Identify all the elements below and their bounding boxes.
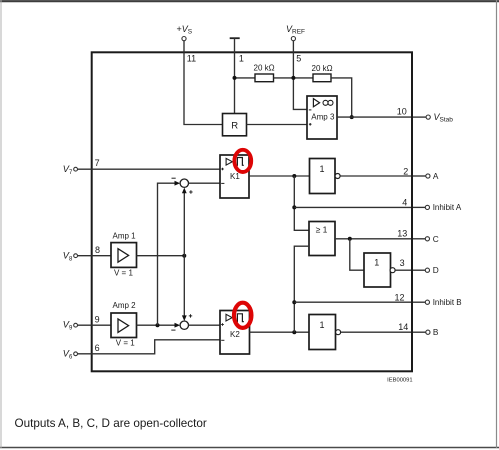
IC outline box <box>92 52 412 371</box>
svg-text:1: 1 <box>239 53 244 63</box>
svg-text:K1: K1 <box>230 172 240 181</box>
terminal A <box>413 171 439 181</box>
svg-text:V9: V9 <box>63 320 73 332</box>
svg-text:V6: V6 <box>63 348 73 360</box>
svg-text:B: B <box>433 327 439 337</box>
wire upper bus from K1 junction down to OR gate upper input <box>294 176 309 230</box>
svg-text:6: 6 <box>95 343 100 353</box>
svg-text:≥ 1: ≥ 1 <box>316 225 328 235</box>
page frame right border <box>496 0 498 448</box>
terminal Inhibit B <box>413 298 462 307</box>
wire OR gate output to pin 13 <box>335 238 411 240</box>
inverter gate A <box>310 159 341 194</box>
node junction on Amp3 output <box>350 115 354 119</box>
svg-text:K2: K2 <box>230 330 240 339</box>
wire S2 output to K2 plus input <box>189 324 221 326</box>
wire V7 to K1 plus input <box>78 168 221 170</box>
svg-text:V = 1: V = 1 <box>114 268 133 277</box>
wire R output to Amp3 plus input <box>247 124 308 126</box>
svg-text:8: 8 <box>95 245 100 255</box>
op-amp Amp 3 <box>307 96 337 139</box>
supply bar pin 1 <box>230 37 240 39</box>
wire junction down into summer S2 <box>183 256 185 319</box>
svg-text:R: R <box>231 120 238 131</box>
amplifier Amp 2 <box>111 301 137 348</box>
svg-text:4: 4 <box>402 197 407 207</box>
wire Inhibit A <box>294 206 411 208</box>
node branch junction to gate D <box>348 237 352 241</box>
terminal C <box>413 234 439 244</box>
terminal D <box>413 265 439 275</box>
comparator K1 <box>220 155 249 198</box>
svg-text:20 kΩ: 20 kΩ <box>312 64 333 73</box>
svg-text:C: C <box>433 234 439 244</box>
terminal V7 <box>63 164 78 176</box>
svg-text:Amp 3: Amp 3 <box>311 112 335 121</box>
svg-text:13: 13 <box>397 229 407 239</box>
node junction pin1 / resistor row <box>233 76 237 80</box>
wire junction up into summer S1 <box>183 191 185 256</box>
svg-text:Inhibit A: Inhibit A <box>433 203 462 212</box>
wire resistor row <box>235 77 256 79</box>
wire Amp3 output to pin 10 <box>337 116 411 118</box>
wire branch down into gate D <box>350 239 364 270</box>
svg-text:1: 1 <box>374 258 379 268</box>
wire V6 to K2 minus input <box>78 340 221 354</box>
node Amp1 output junction <box>182 254 186 258</box>
wire pin 1 bar down to R block <box>234 38 236 113</box>
page frame top border <box>0 0 499 2</box>
wire lower bus from OR gate lower input down to K2 junction <box>294 246 309 332</box>
wire K2 output to gate B <box>250 331 310 333</box>
svg-text:Inhibit B: Inhibit B <box>433 298 462 307</box>
svg-text:5: 5 <box>296 53 301 63</box>
wire V8 to Amp1 <box>78 255 112 257</box>
wire Amp2 output to summer S2 <box>137 324 177 326</box>
page frame left border <box>0 0 2 448</box>
terminal V8 <box>63 250 78 262</box>
svg-text:VStab: VStab <box>434 112 454 124</box>
amplifier Amp 1 <box>111 231 137 277</box>
wire gate B output to pin 14 <box>341 331 411 333</box>
wire VREF down to Amp3 minus input <box>293 41 307 110</box>
svg-text:9: 9 <box>95 315 100 325</box>
wire gate D output to pin 3 <box>395 269 411 271</box>
node junction VREF / resistor row <box>291 76 295 80</box>
wire gate A output to pin 2 <box>340 175 411 177</box>
svg-text:V = 1: V = 1 <box>116 339 135 348</box>
wire Amp2 junction up to summer S1 input <box>158 183 177 325</box>
terminal V9 <box>63 320 78 332</box>
svg-text:D: D <box>433 265 439 275</box>
wire R2 to Amp3 output node <box>331 78 352 117</box>
red highlight circle on K2 hysteresis <box>234 303 251 328</box>
terminal B <box>413 327 439 337</box>
svg-text:12: 12 <box>394 292 404 302</box>
terminal VREF <box>286 24 305 41</box>
svg-text:Outputs A, B, C, D are open-co: Outputs A, B, C, D are open-collector <box>15 417 207 430</box>
svg-text:20 kΩ: 20 kΩ <box>254 64 275 73</box>
node K2 output junction <box>292 330 296 334</box>
svg-text:IEB00091: IEB00091 <box>387 377 412 383</box>
svg-text:7: 7 <box>95 158 100 168</box>
summer S2 <box>171 314 192 330</box>
svg-text:3: 3 <box>400 258 405 268</box>
svg-text:VREF: VREF <box>286 24 305 36</box>
terminal +VS <box>177 24 193 41</box>
wire S1 output to K1 minus input <box>189 182 221 184</box>
svg-text:10: 10 <box>397 107 407 117</box>
inverter gate D <box>364 253 395 287</box>
svg-text:Amp 2: Amp 2 <box>113 301 137 310</box>
wire +VS pin 11 down and to R input <box>184 41 223 125</box>
wire between resistors <box>274 77 314 79</box>
node Inhibit A junction <box>292 205 296 209</box>
svg-text:V7: V7 <box>63 164 73 176</box>
block R <box>223 114 247 136</box>
wire K1 output to gate A <box>249 175 310 177</box>
svg-text:1: 1 <box>320 320 325 330</box>
or-gate GE1 <box>309 222 335 256</box>
node Inhibit B junction <box>292 300 296 304</box>
svg-text:14: 14 <box>398 322 408 332</box>
terminal VStab <box>413 112 453 124</box>
node Amp2 output junction <box>156 323 160 327</box>
svg-text:2: 2 <box>403 166 408 176</box>
svg-text:V8: V8 <box>63 250 73 262</box>
svg-text:1: 1 <box>320 164 325 174</box>
terminal Inhibit A <box>413 203 462 212</box>
page frame bottom border <box>0 447 499 449</box>
svg-text:A: A <box>433 171 439 181</box>
wire Inhibit B <box>294 301 411 303</box>
resistor R2 20 kOhm <box>313 74 331 82</box>
inverter gate B <box>309 315 341 350</box>
svg-text:+VS: +VS <box>177 24 193 36</box>
red highlight circle on K1 hysteresis <box>234 150 251 172</box>
comparator K2 <box>220 311 250 355</box>
svg-text:11: 11 <box>187 53 196 63</box>
node K1 output junction <box>292 174 296 178</box>
wire Amp1 output to summing node <box>137 255 185 257</box>
summer S1 <box>172 178 193 194</box>
terminal V6 <box>63 348 78 360</box>
resistor R1 20 kOhm <box>255 74 274 82</box>
wire V9 to Amp2 <box>78 324 112 326</box>
svg-text:Amp 1: Amp 1 <box>113 231 137 240</box>
